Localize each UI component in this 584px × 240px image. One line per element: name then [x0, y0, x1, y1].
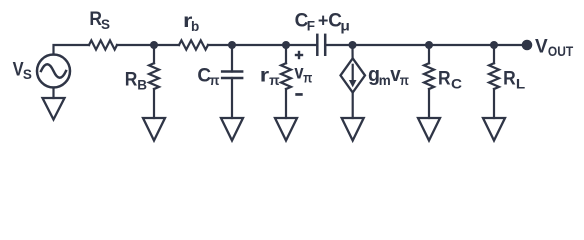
minus sign of vpi	[295, 93, 302, 96]
gm source top stub	[351, 45, 353, 59]
label CF + Cmu	[295, 10, 350, 33]
label rb	[183, 11, 199, 34]
ground under RL	[483, 118, 505, 141]
dependent current source gm*vpi diamond	[341, 58, 366, 92]
wire cap to output node	[325, 44, 352, 46]
Cpi bottom stub	[231, 78, 233, 118]
plus sign of vpi	[295, 54, 303, 56]
svg-text:V: V	[535, 36, 548, 57]
svg-text:R: R	[503, 69, 516, 90]
svg-text:C: C	[451, 77, 462, 92]
label RC	[438, 69, 462, 92]
Cpi top stub	[231, 45, 233, 72]
resistor RL	[489, 63, 499, 89]
svg-text:R: R	[438, 69, 451, 90]
wire rb to node Bp	[208, 44, 286, 46]
svg-text:S: S	[101, 17, 110, 32]
ground under RC	[418, 118, 440, 141]
svg-text:B: B	[137, 78, 147, 93]
gm source arrow shaft	[352, 65, 354, 81]
node junction dot at RL	[490, 41, 498, 49]
label Cpi	[197, 65, 219, 88]
node junction dot at rpi	[282, 41, 290, 49]
RB top stub	[153, 45, 155, 63]
label vpi	[294, 63, 312, 86]
capacitor CF+Cmu plates	[317, 34, 325, 56]
RC bottom stub	[428, 89, 430, 118]
svg-text:μ: μ	[340, 17, 350, 33]
wire node Bp to CF cap	[286, 44, 317, 46]
svg-text:R: R	[125, 70, 138, 91]
label gm vpi	[368, 63, 409, 88]
node junction dot at RB	[150, 41, 158, 49]
resistor rb	[179, 40, 208, 49]
svg-text:π: π	[400, 73, 409, 88]
capacitor Cpi plates	[221, 72, 244, 79]
wire node B to rb	[154, 44, 179, 46]
svg-text:m: m	[379, 73, 391, 88]
svg-text:S: S	[23, 67, 32, 82]
VOUT terminal dot	[522, 40, 533, 51]
node junction dot at gm source	[349, 41, 357, 49]
wire output node to RC node	[353, 44, 430, 46]
RL bottom stub	[493, 89, 495, 118]
label RL	[503, 69, 525, 92]
RC top stub	[428, 45, 430, 63]
node junction dot at Cpi	[228, 41, 236, 49]
gm source bottom stub	[352, 93, 354, 119]
svg-text:b: b	[191, 19, 199, 34]
VS bottom stub	[52, 88, 54, 99]
label rpi	[260, 66, 280, 88]
svg-text:OUT: OUT	[548, 44, 574, 59]
svg-text:F: F	[307, 18, 315, 33]
svg-text:L: L	[516, 77, 525, 92]
RL top stub	[493, 45, 495, 63]
rpi bottom stub	[285, 89, 287, 118]
wire RL node to VOUT terminal	[494, 44, 527, 46]
label VS	[13, 60, 32, 82]
label RS	[89, 9, 110, 32]
label RB	[125, 70, 148, 93]
resistor RB	[149, 63, 159, 89]
svg-text:+: +	[318, 11, 329, 31]
ground under RB	[143, 118, 165, 141]
wire from VS corner to RS	[54, 45, 90, 55]
RB bottom stub	[153, 89, 155, 118]
ground under rpi	[275, 118, 297, 141]
rpi top stub	[285, 45, 287, 63]
svg-text:π: π	[269, 73, 280, 88]
svg-text:π: π	[210, 73, 220, 88]
VS sine wave	[41, 64, 66, 78]
ground under gm source	[342, 118, 364, 141]
ground under VS	[43, 98, 65, 120]
resistor RC	[424, 63, 434, 89]
ground under Cpi	[221, 118, 243, 141]
wire RC node to RL node	[429, 44, 494, 46]
wire RS to node B	[117, 44, 154, 46]
resistor rpi	[281, 63, 291, 89]
node junction dot at RC	[425, 41, 433, 49]
voltage source VS circle	[37, 55, 70, 88]
gm source arrowhead	[349, 80, 357, 87]
svg-text:π: π	[303, 70, 312, 85]
resistor RS	[89, 40, 117, 49]
label VOUT	[535, 36, 574, 59]
